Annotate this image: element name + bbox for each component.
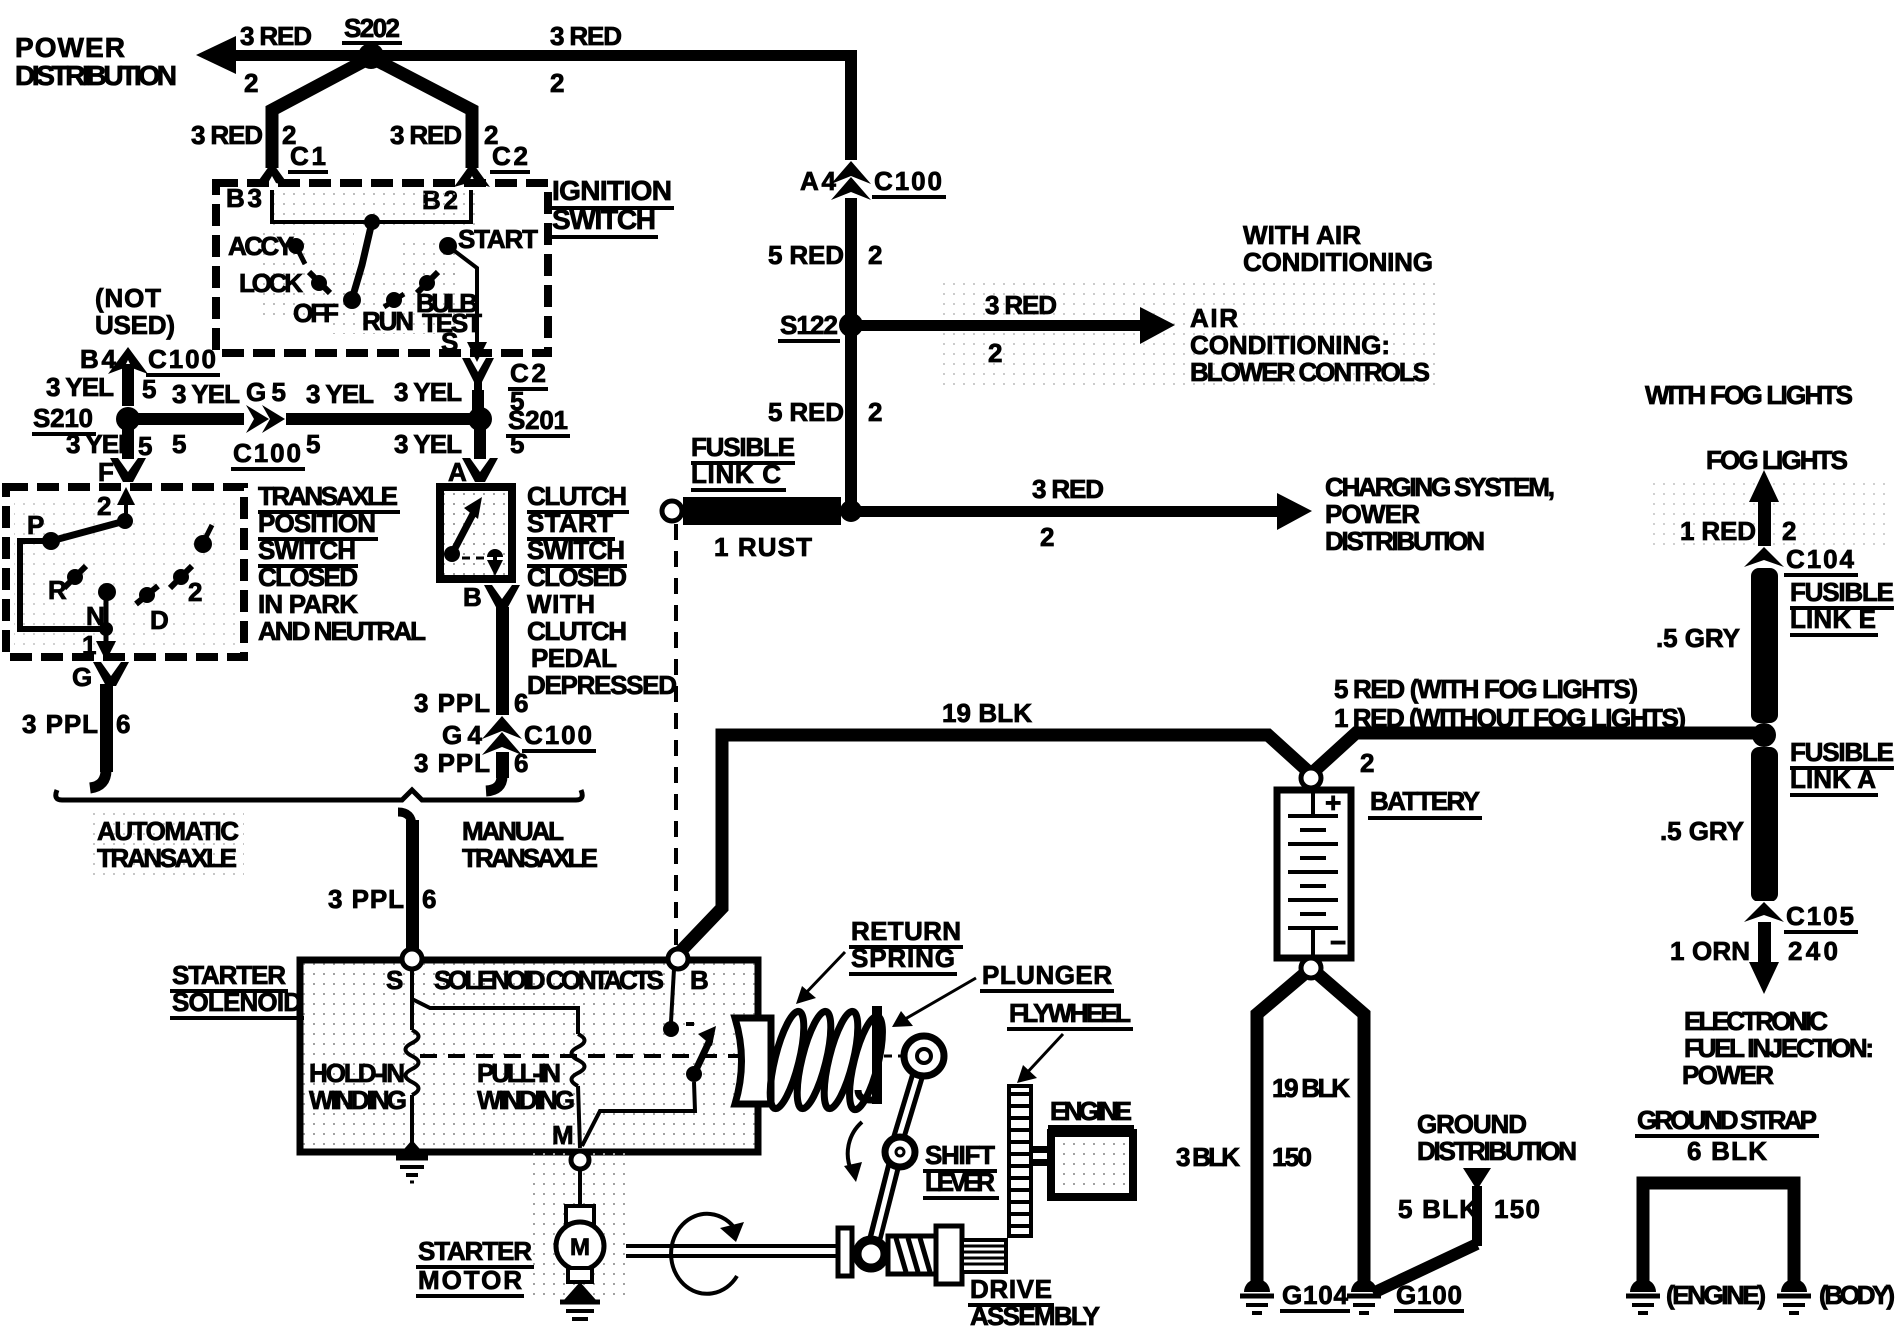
contact R: [48, 566, 86, 605]
label 2 (AC branch): [988, 338, 1002, 368]
wire S201 down to A: [474, 425, 486, 459]
label 2 (right circuit number): [550, 68, 564, 98]
label 2 (lower middle vertical): [868, 397, 882, 427]
svg-text:WITH AIR: WITH AIR: [1243, 220, 1361, 250]
clutch switch fixed contact (dome with down arrow): [462, 549, 503, 576]
label F: [98, 457, 114, 487]
plunger cup: [735, 1018, 771, 1104]
svg-text:150: 150: [1494, 1194, 1540, 1224]
svg-text:2: 2: [97, 491, 111, 521]
svg-text:SWITCH: SWITCH: [552, 204, 656, 235]
svg-text:C105: C105: [1786, 901, 1854, 931]
svg-text:(NOT: (NOT: [95, 283, 161, 313]
svg-text:MANUAL: MANUAL: [462, 816, 564, 846]
svg-text:6: 6: [514, 688, 528, 718]
connector C100 B4 (male arrow up, not used): [80, 344, 220, 406]
svg-text:RETURN: RETURN: [851, 916, 961, 946]
starter solenoid box: [300, 960, 758, 1152]
svg-text:HOLD-IN: HOLD-IN: [309, 1058, 405, 1088]
connector C1 (male arrow into ignition switch): [254, 141, 328, 187]
svg-text:2: 2: [1040, 522, 1054, 552]
svg-text:SOLENOID: SOLENOID: [172, 987, 302, 1017]
svg-text:LOCK: LOCK: [239, 268, 303, 298]
contact top-right (2): [194, 525, 212, 553]
wire 3 PPL clutch B down to G4: [496, 607, 509, 719]
label 2 (C2 branch): [484, 120, 498, 150]
svg-text:AIR: AIR: [1190, 303, 1238, 333]
svg-text:3 PPL: 3 PPL: [414, 748, 490, 778]
svg-text:3 YEL: 3 YEL: [394, 377, 462, 407]
svg-text:S: S: [386, 965, 403, 995]
label 6 (G wire): [116, 709, 130, 739]
svg-text:3 RED: 3 RED: [550, 21, 622, 51]
svg-text:S201: S201: [508, 405, 568, 435]
label 3 RED (C2 branch): [390, 120, 462, 150]
fusible link A (thick bar): [1751, 747, 1778, 902]
svg-text:2: 2: [1782, 516, 1796, 546]
pull-in winding coil: [572, 1020, 585, 1148]
label FUSIBLE LINK C: [691, 432, 795, 490]
label WITH FOG LIGHTS: [1645, 380, 1853, 410]
svg-text:5: 5: [138, 431, 152, 461]
label 2 (transaxle top contact): [97, 491, 111, 521]
svg-text:3 RED: 3 RED: [985, 290, 1057, 320]
contact BULB TEST: [416, 272, 482, 338]
battery: [1277, 787, 1351, 958]
wire N down to pin 1 (arrow out of box): [96, 592, 116, 661]
label 6 (below G4): [514, 748, 528, 778]
svg-text:(BODY): (BODY): [1819, 1280, 1895, 1310]
svg-text:6: 6: [422, 884, 436, 914]
svg-text:19 BLK: 19 BLK: [1272, 1073, 1350, 1103]
label 6 (solenoid feed): [422, 884, 436, 914]
svg-text:AND NEUTRAL: AND NEUTRAL: [258, 616, 426, 646]
svg-text:B4: B4: [80, 344, 117, 374]
svg-text:ENGINE: ENGINE: [1050, 1096, 1132, 1126]
label 3 RED (right of S202): [550, 21, 622, 51]
label TRANSAXLE POSITION SWITCH CLOSED IN PARK AND NEUTRAL: [258, 481, 426, 646]
label 1 (transaxle pin): [82, 630, 96, 660]
label 1 RED (WITHOUT FOG LIGHTS): [1334, 703, 1686, 733]
contact N: [86, 583, 116, 631]
ignition switch dashed box: [216, 183, 548, 353]
label 3 YEL (B4 wire): [46, 372, 114, 402]
svg-text:C100: C100: [874, 166, 942, 196]
wire ignition internal bus B3-B2: [272, 190, 471, 230]
shift lever: [872, 1036, 944, 1250]
svg-text:C104: C104: [1786, 544, 1855, 574]
wire 3 RED vertical to A4 C100 (right): [845, 50, 857, 165]
connector C2 bottom (female Y from ignition S): [462, 358, 548, 416]
svg-text:.5 GRY: .5 GRY: [1660, 816, 1744, 846]
wire 1 ORN to EFI (arrow down): [1749, 922, 1779, 994]
svg-text:M: M: [552, 1120, 574, 1150]
svg-text:B: B: [463, 582, 482, 612]
label GROUND DISTRIBUTION: [1417, 1109, 1577, 1166]
label B3 terminal: [226, 183, 262, 213]
svg-text:ELECTRONIC: ELECTRONIC: [1684, 1006, 1828, 1036]
svg-text:1 RED: 1 RED: [1680, 516, 1756, 546]
rotation arrow (motor shaft): [671, 1214, 744, 1294]
svg-text:3 PPL: 3 PPL: [328, 884, 404, 914]
svg-text:C2: C2: [510, 358, 546, 388]
wire 3 RED to air conditioning (arrow): [858, 307, 1175, 344]
label STARTER SOLENOID: [170, 960, 304, 1018]
label AIR CONDITIONING: BLOWER CONTROLS: [1190, 303, 1430, 387]
svg-text:LINK E: LINK E: [1790, 604, 1876, 634]
wire 3 PPL G4 down to bus: [486, 752, 509, 791]
wire 1 RED to fog lights (arrow up): [1749, 470, 1779, 556]
wire 3 PPL bus to starter solenoid S: [398, 812, 419, 950]
svg-text:C100: C100: [233, 438, 301, 468]
svg-text:CLUTCH: CLUTCH: [527, 616, 627, 646]
svg-text:R: R: [48, 575, 67, 605]
svg-text:FOG LIGHTS: FOG LIGHTS: [1706, 445, 1848, 475]
svg-text:5: 5: [306, 429, 320, 459]
clutch switch arm (arrow up-right): [444, 497, 482, 562]
label 2 (left circuit number): [244, 68, 258, 98]
connector C100 A4 (double chevron): [800, 160, 946, 202]
svg-text:LEVER: LEVER: [925, 1167, 995, 1197]
svg-text:A4: A4: [800, 166, 837, 196]
starter motor block: [532, 1152, 626, 1296]
svg-text:1 ORN: 1 ORN: [1670, 936, 1750, 966]
ground G100: [1347, 1279, 1464, 1313]
label 240: [1788, 936, 1838, 966]
label ENGINE: [1048, 1096, 1134, 1127]
label 3 YEL (below S210): [66, 429, 134, 459]
label ELECTRONIC FUEL INJECTION: POWER: [1682, 1006, 1874, 1090]
wire S202 to C1 (left branch): [272, 60, 366, 168]
label 5 RED (upper): [768, 240, 844, 270]
svg-text:S122: S122: [780, 310, 838, 340]
svg-text:−: −: [1330, 927, 1346, 958]
label PULL-IN WINDING: [477, 1058, 575, 1115]
label 3 RED (left of S202): [240, 21, 312, 51]
wire 5 RED A4 to S122: [845, 198, 857, 328]
contact D: [136, 586, 169, 635]
ground (hold-in winding): [396, 1140, 428, 1182]
label PLUNGER: [892, 960, 1114, 1027]
svg-text:OFF: OFF: [293, 298, 339, 328]
bus automatic/manual transaxle (brace): [56, 790, 582, 800]
label A: [448, 457, 467, 487]
label G: [72, 662, 92, 692]
wire 3 RED power distribution feed (top horizontal): [196, 36, 852, 74]
label CLUTCH START SWITCH CLOSED WITH CLUTCH PEDAL DEPRESSED: [527, 481, 677, 700]
label FUSIBLE LINK A: [1790, 737, 1894, 795]
label DRIVE ASSEMBLY: [968, 1274, 1102, 1328]
label 2 (C1 branch): [282, 120, 296, 150]
label FOG LIGHTS: [1706, 445, 1848, 475]
label 3 YEL (left of S201): [394, 377, 462, 407]
svg-text:3 RED: 3 RED: [390, 120, 462, 150]
svg-text:D: D: [150, 605, 169, 635]
ignition switch interior shading: [262, 192, 478, 334]
label 19 BLK (negative wire): [1272, 1073, 1350, 1103]
rotation arrow (shift lever): [844, 1122, 862, 1182]
label IGNITION SWITCH: [552, 175, 674, 237]
connector G5 C100 (inline chevrons): [231, 377, 305, 469]
wire P loop to N output: [20, 541, 106, 629]
wire S internal to windings: [412, 969, 578, 1022]
label 5 (B4 wire): [142, 374, 156, 404]
label 3 RED (C1 branch): [191, 120, 263, 150]
label 2 (fog lights): [1782, 516, 1796, 546]
svg-text:WITH FOG LIGHTS: WITH FOG LIGHTS: [1645, 380, 1853, 410]
wire 1 RUST dashed to solenoid B: [674, 524, 678, 948]
wire battery negative to G100: [1319, 975, 1364, 1282]
hold-in winding coil: [406, 1020, 419, 1150]
svg-text:240: 240: [1788, 936, 1838, 966]
transaxle position switch dashed box: [6, 487, 244, 657]
starter motor shaft: [626, 1246, 840, 1256]
svg-text:5 RED: 5 RED: [768, 397, 844, 427]
node B terminal (solenoid): [668, 949, 709, 995]
contact ACCY: [228, 231, 305, 264]
svg-text:TRANSAXLE: TRANSAXLE: [462, 843, 598, 873]
label FLYWHEEL: [1007, 998, 1133, 1083]
connector F (female Y into transaxle switch): [110, 458, 146, 482]
wire S202 to C2 (right branch): [376, 60, 472, 168]
shading fog lights region: [1650, 480, 1890, 550]
label 3 PPL (solenoid feed): [328, 884, 404, 914]
connector A (female Y into clutch switch): [462, 458, 498, 482]
svg-text:5 RED: 5 RED: [768, 240, 844, 270]
svg-text:3 PPL: 3 PPL: [414, 688, 490, 718]
svg-text:STARTER: STARTER: [172, 960, 286, 990]
svg-text:DISTRIBUTION: DISTRIBUTION: [1325, 526, 1485, 556]
svg-text:CONDITIONING:: CONDITIONING:: [1190, 330, 1390, 360]
svg-text:TRANSAXLE: TRANSAXLE: [97, 843, 237, 873]
label SHIFT LEVER: [923, 1140, 999, 1198]
svg-text:SWITCH: SWITCH: [258, 535, 356, 565]
svg-text:START: START: [527, 508, 613, 538]
starter motor M: [556, 1206, 604, 1282]
svg-text:3 BLK: 3 BLK: [1176, 1142, 1240, 1172]
svg-text:2: 2: [988, 338, 1002, 368]
fusible link E (thick bar): [1751, 568, 1778, 723]
svg-text:BATTERY: BATTERY: [1370, 786, 1480, 816]
connector B (female Y below clutch box): [484, 585, 520, 609]
node S terminal (solenoid): [386, 949, 422, 995]
svg-text:BLOWER CONTROLS: BLOWER CONTROLS: [1190, 357, 1430, 387]
svg-text:3 YEL: 3 YEL: [46, 372, 114, 402]
svg-text:CLUTCH: CLUTCH: [527, 481, 627, 511]
svg-text:5 BLK: 5 BLK: [1398, 1194, 1478, 1224]
svg-text:GROUND STRAP: GROUND STRAP: [1637, 1105, 1817, 1135]
svg-text:FUSIBLE: FUSIBLE: [1790, 737, 1894, 767]
svg-text:WINDING: WINDING: [309, 1085, 407, 1115]
node S201: [468, 390, 570, 436]
svg-text:C100: C100: [524, 720, 592, 750]
svg-text:POWER: POWER: [1682, 1060, 1774, 1090]
label (NOT USED): [95, 283, 175, 340]
svg-text:SHIFT: SHIFT: [925, 1140, 995, 1170]
svg-text:+: +: [1325, 787, 1341, 818]
solenoid moving contact arm: [686, 1026, 716, 1082]
transaxle switch interior shading: [14, 495, 236, 649]
svg-text:WINDING: WINDING: [477, 1085, 575, 1115]
svg-text:STARTER: STARTER: [418, 1236, 532, 1266]
svg-text:2: 2: [550, 68, 564, 98]
label CHARGING SYSTEM, POWER DISTRIBUTION: [1325, 472, 1555, 556]
fusible link C (thick bar): [662, 497, 841, 525]
label 2 (battery positive wire): [1360, 748, 1374, 778]
svg-text:IN PARK: IN PARK: [258, 589, 358, 619]
svg-text:CHARGING SYSTEM,: CHARGING SYSTEM,: [1325, 472, 1555, 502]
node S122: [778, 310, 863, 341]
label 1 RUST: [714, 532, 812, 562]
wire 19 BLK solenoid B to battery: [678, 735, 1311, 954]
label 3 PPL (above G4): [414, 688, 490, 718]
wire 3 PPL G down to bus: [90, 684, 113, 788]
label SOLENOID CONTACTS: [434, 965, 664, 995]
svg-text:SWITCH: SWITCH: [527, 535, 625, 565]
ground G104: [1240, 1279, 1350, 1313]
label 3 YEL (left of G5): [172, 379, 240, 409]
svg-text:MOTOR: MOTOR: [418, 1265, 522, 1295]
label BATTERY: [1368, 786, 1482, 818]
wire 5 BLK from ground distribution (arrow down): [1373, 1168, 1491, 1293]
wire S210 down to F: [122, 425, 134, 459]
node M terminal circle: [571, 1151, 589, 1169]
svg-text:1 RED (WITHOUT FOG LIGHTS): 1 RED (WITHOUT FOG LIGHTS): [1334, 703, 1686, 733]
svg-text:2: 2: [868, 240, 882, 270]
svg-text:3 PPL: 3 PPL: [22, 709, 98, 739]
label 6 (above G4): [514, 688, 528, 718]
label S (ignition output): [441, 327, 458, 357]
label 150 (G104 wire): [1272, 1142, 1312, 1172]
svg-text:GROUND: GROUND: [1417, 1109, 1527, 1139]
wire transaxle wiper to F (arrow up): [117, 487, 135, 521]
label 3 RED (charging branch): [1032, 474, 1104, 504]
svg-text:5: 5: [142, 374, 156, 404]
svg-text:ACCY: ACCY: [228, 231, 294, 261]
connector G4 C100 (double chevron): [442, 715, 596, 756]
svg-text:CONDITIONING: CONDITIONING: [1243, 247, 1433, 277]
svg-text:POWER: POWER: [1325, 499, 1420, 529]
svg-text:2: 2: [244, 68, 258, 98]
svg-text:1 RUST: 1 RUST: [714, 532, 812, 562]
label B2 terminal: [422, 185, 458, 215]
label .5 GRY (link A): [1660, 816, 1744, 846]
svg-text:FUSIBLE: FUSIBLE: [691, 432, 795, 462]
svg-text:DISTRIBUTION: DISTRIBUTION: [1417, 1136, 1577, 1166]
ignition switch wiper OFF: [352, 222, 372, 299]
wire 3 RED to charging system (arrow): [858, 493, 1312, 530]
svg-text:5: 5: [172, 429, 186, 459]
svg-text:FUSIBLE: FUSIBLE: [1790, 577, 1894, 607]
label 5 RED (WITH FOG LIGHTS): [1334, 674, 1638, 704]
svg-text:.5 GRY: .5 GRY: [1656, 623, 1740, 653]
svg-text:19 BLK: 19 BLK: [942, 698, 1032, 728]
mechanical linkage dashed line: [420, 1054, 742, 1058]
label 3 PPL (G wire): [22, 709, 98, 739]
label 1 RED (fog lights): [1680, 516, 1756, 546]
svg-text:TRANSAXLE: TRANSAXLE: [258, 481, 398, 511]
svg-text:B: B: [690, 965, 709, 995]
label 5 RED (lower): [768, 397, 844, 427]
svg-text:G5: G5: [246, 377, 286, 407]
svg-text:2: 2: [868, 397, 882, 427]
label AUTOMATIC TRANSAXLE: [92, 812, 244, 878]
svg-text:C1: C1: [290, 141, 326, 171]
svg-text:G104: G104: [1282, 1280, 1349, 1310]
label 3 YEL (below S201): [394, 429, 462, 459]
contact OFF: [293, 291, 361, 328]
label MANUAL TRANSAXLE: [462, 816, 598, 873]
wire battery negative to G104: [1257, 975, 1303, 1282]
svg-text:FLYWHEEL: FLYWHEEL: [1009, 998, 1131, 1028]
svg-text:IGNITION: IGNITION: [552, 175, 672, 206]
wire 5 RED S122 to fusible link C: [845, 328, 857, 508]
svg-text:CLOSED: CLOSED: [258, 562, 358, 592]
node S210: [32, 403, 140, 434]
svg-text:2: 2: [1360, 748, 1374, 778]
label WITH AIR CONDITIONING: [1243, 220, 1433, 277]
label 1 ORN: [1670, 936, 1750, 966]
svg-text:2: 2: [188, 577, 202, 607]
svg-text:POWER: POWER: [15, 32, 125, 63]
label 19 BLK (top wire): [942, 698, 1032, 728]
contact START: [439, 224, 538, 255]
label RETURN SPRING: [796, 916, 963, 1004]
svg-text:WITH: WITH: [527, 589, 595, 619]
label STARTER MOTOR: [416, 1236, 534, 1296]
label M terminal: [552, 1120, 574, 1150]
label 3 PPL (below G4): [414, 748, 490, 778]
node fusible link junction: [1752, 723, 1776, 747]
svg-text:G: G: [72, 662, 92, 692]
connector G (female Y below transaxle box): [93, 662, 129, 686]
svg-text:5 RED (WITH FOG LIGHTS): 5 RED (WITH FOG LIGHTS): [1334, 674, 1638, 704]
svg-text:S202: S202: [344, 13, 400, 43]
svg-text:150: 150: [1272, 1142, 1312, 1172]
engine block: [1029, 1133, 1133, 1197]
wire START to S output: [448, 246, 477, 350]
contact 2 (right): [170, 566, 202, 607]
svg-text:SPRING: SPRING: [851, 943, 955, 973]
contact P: [27, 510, 60, 550]
shading with air conditioning: [940, 280, 1440, 385]
svg-text:6: 6: [116, 709, 130, 739]
svg-text:(ENGINE): (ENGINE): [1666, 1280, 1766, 1310]
svg-text:3 RED: 3 RED: [240, 21, 312, 51]
svg-text:3 RED: 3 RED: [191, 120, 263, 150]
label .5 GRY (link E): [1656, 623, 1740, 653]
label FUSIBLE LINK E: [1790, 577, 1894, 635]
wire M to starter motor: [578, 1169, 582, 1206]
label 2 (charging branch): [1040, 522, 1054, 552]
wire battery to fusible link junction: [1311, 733, 1761, 774]
svg-text:M: M: [570, 1234, 590, 1261]
wire B internal to fixed contact: [663, 969, 694, 1037]
label B (clutch switch output): [463, 582, 482, 612]
node battery negative: [1301, 958, 1321, 978]
svg-text:PULL-IN: PULL-IN: [477, 1058, 561, 1088]
svg-text:6: 6: [514, 748, 528, 778]
svg-text:AUTOMATIC: AUTOMATIC: [97, 816, 239, 846]
svg-text:C2: C2: [492, 141, 528, 171]
connector C105: [1744, 901, 1858, 932]
svg-text:DISTRIBUTION: DISTRIBUTION: [15, 60, 177, 91]
flywheel ring gear: [1009, 1086, 1031, 1236]
svg-text:F: F: [98, 457, 114, 487]
wire moving contact to M terminal: [582, 1082, 695, 1146]
svg-text:FUEL INJECTION:: FUEL INJECTION:: [1684, 1033, 1874, 1063]
label POWER DISTRIBUTION: [15, 32, 177, 91]
